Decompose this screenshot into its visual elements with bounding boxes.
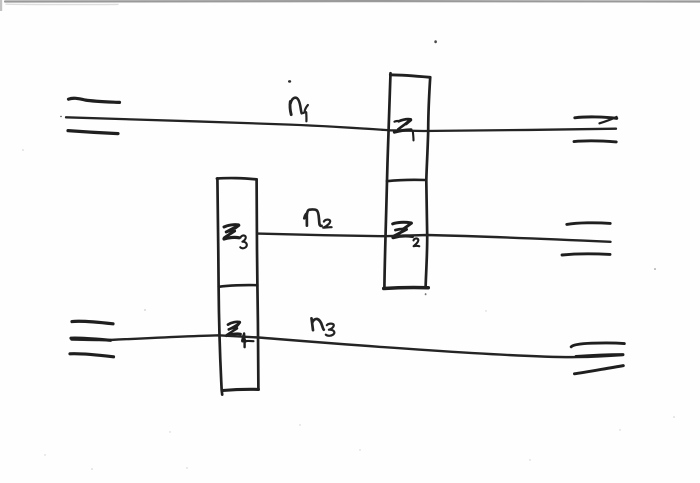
scan smudge top-left corner: [0, 0, 2, 11]
terminal hash n3 left top: [72, 321, 113, 324]
impedance Z4: [226, 322, 253, 347]
speck right middle: [654, 268, 656, 270]
terminal hash n1 right top: [575, 117, 617, 119]
speck below Z2 box corner: [425, 293, 427, 295]
wire n2: [258, 234, 611, 242]
terminal hash n2 right top: [567, 223, 610, 225]
wire n3: [72, 335, 624, 357]
terminal hash n3 left middle: [71, 338, 111, 340]
impedance Z2: [393, 222, 420, 246]
terminal hash n3 left bottom: [70, 354, 114, 357]
terminal hash n1 left bottom: [68, 131, 118, 134]
terminal hash n3 right top: [571, 343, 624, 347]
impedance Z3: [224, 225, 247, 249]
speck above n1 label: [288, 80, 291, 83]
scan artifact line: [5, 0, 700, 3]
terminal hash n2 right bottom: [562, 254, 610, 255]
node label n2: [304, 210, 331, 228]
node label n3: [312, 318, 335, 336]
speck at n1 wire start: [60, 116, 62, 117]
node label n1: [290, 98, 308, 122]
terminal hash n1 left top: [69, 98, 120, 102]
terminal hash n1 right hook: [600, 117, 617, 123]
impedance box column left (Z3,Z4): [217, 178, 259, 395]
speck top middle: [434, 40, 437, 43]
impedance Z1: [394, 119, 413, 140]
terminal hash n3 right bottom: [575, 366, 624, 374]
impedance box column right (Z1,Z2): [384, 73, 431, 288]
wire n1: [66, 117, 616, 131]
speck field (paper noise): [22, 149, 675, 470]
terminal hash n3 right middle: [576, 355, 623, 357]
terminal hash n1 right bottom: [574, 139, 616, 143]
